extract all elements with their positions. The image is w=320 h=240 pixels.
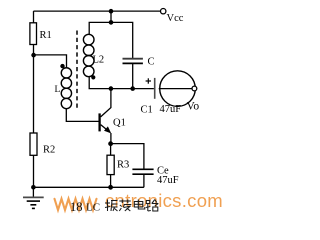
svg-text:R2: R2 xyxy=(43,144,55,155)
svg-text:R1: R1 xyxy=(40,30,52,41)
svg-text:Vcc: Vcc xyxy=(167,13,184,24)
svg-text:47uF: 47uF xyxy=(157,175,179,186)
svg-text:L: L xyxy=(55,85,61,95)
svg-text:C: C xyxy=(148,57,155,68)
svg-text:LC: LC xyxy=(86,202,100,214)
svg-text:L2: L2 xyxy=(93,55,105,66)
svg-text:Vo: Vo xyxy=(187,101,200,113)
svg-text:47uF: 47uF xyxy=(160,104,182,115)
svg-text:R3: R3 xyxy=(117,160,129,171)
svg-text:Q1: Q1 xyxy=(113,118,126,129)
svg-text:18: 18 xyxy=(70,200,83,214)
svg-text:C1: C1 xyxy=(141,105,153,116)
